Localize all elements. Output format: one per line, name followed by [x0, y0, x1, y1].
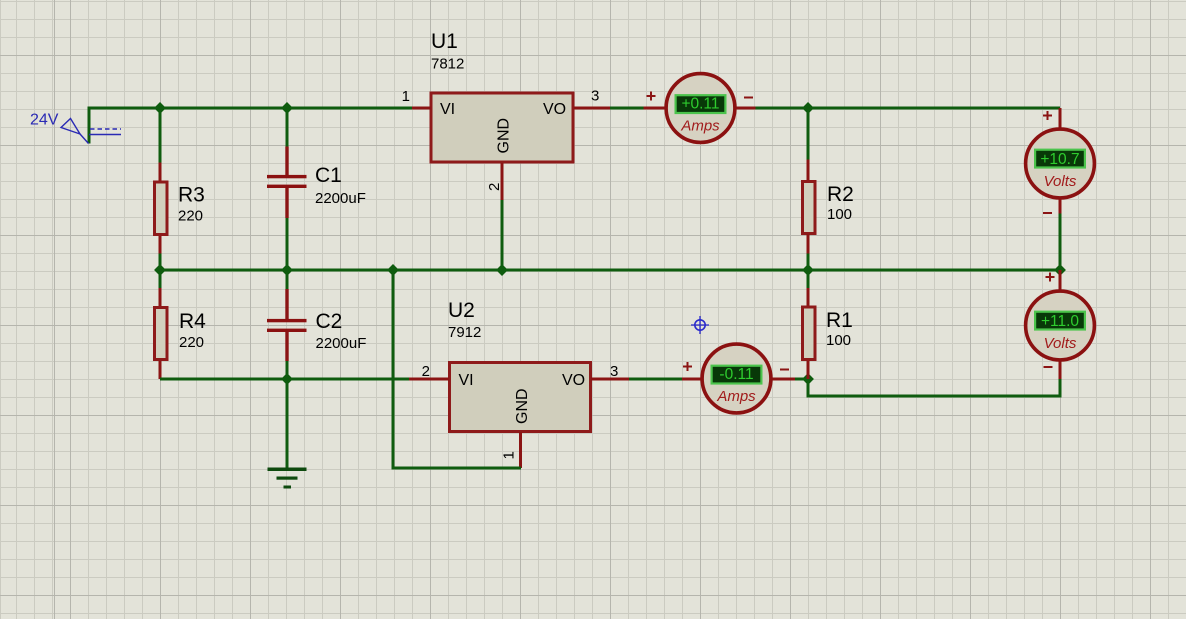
svg-text:+10.7: +10.7	[1040, 151, 1079, 168]
svg-text:100: 100	[827, 206, 852, 223]
svg-text:2200uF: 2200uF	[316, 335, 367, 352]
wire voltmeter VM2 bottom loop to ammeter node	[808, 379, 1060, 396]
wire C2 bottom to ground	[286, 361, 289, 468]
wire lower-left rail R4 to U2 pin2	[160, 378, 409, 381]
svg-text:7912: 7912	[448, 324, 481, 341]
svg-text:3: 3	[610, 363, 618, 380]
svg-text:R4: R4	[179, 310, 206, 333]
capacitor C1	[267, 147, 366, 219]
resistor R2	[803, 108, 854, 254]
wire U2 pin3 to ammeter AM2	[629, 378, 682, 381]
junction node lower rail at C2/ground	[281, 373, 293, 385]
resistor R4	[155, 288, 207, 379]
svg-text:GND: GND	[496, 118, 513, 154]
junction node top rail at R2	[802, 102, 814, 114]
svg-text:+0.11: +0.11	[681, 96, 719, 113]
svg-text:1: 1	[402, 88, 410, 105]
svg-text:VI: VI	[459, 372, 474, 389]
capacitor C2	[267, 289, 366, 361]
wire U1 pin3 to ammeter AM1	[610, 107, 644, 110]
wire U2 pin1 riser to mid rail	[393, 270, 521, 468]
svg-text:R1: R1	[826, 309, 853, 332]
voltage regulator U2 7912	[409, 299, 629, 468]
svg-text:Amps: Amps	[716, 388, 756, 405]
svg-text:VI: VI	[440, 101, 455, 118]
svg-text:VO: VO	[543, 101, 566, 118]
svg-text:R2: R2	[827, 183, 854, 206]
svg-text:220: 220	[179, 334, 204, 351]
wire voltmeter VM1 bottom to mid rail	[1059, 214, 1062, 271]
voltage regulator U1 7812	[402, 30, 610, 200]
svg-text:+11.0: +11.0	[1041, 313, 1079, 330]
junction node at R1 bottom / ammeter AM2 output	[802, 373, 814, 385]
junction node top rail at C1	[281, 102, 293, 114]
wire mid rail	[160, 269, 1060, 272]
wire R2 top green	[807, 108, 810, 160]
svg-text:24V: 24V	[30, 112, 59, 129]
svg-text:1: 1	[501, 451, 518, 459]
junction node top rail at R3	[154, 102, 166, 114]
svg-text:2200uF: 2200uF	[315, 190, 366, 207]
power terminal 24V	[30, 112, 121, 144]
svg-text:VO: VO	[562, 372, 585, 389]
voltmeter VM1	[1026, 108, 1095, 214]
svg-text:U2: U2	[448, 299, 475, 322]
junction node mid rail at U1 pin2	[496, 264, 508, 276]
svg-text:220: 220	[178, 208, 203, 225]
origin marker crosshair	[691, 316, 709, 334]
svg-text:C2: C2	[316, 310, 343, 333]
wire R3 bottom to mid rail and R4 top	[159, 254, 162, 289]
svg-text:3: 3	[591, 88, 599, 105]
svg-text:-0.11: -0.11	[719, 366, 753, 383]
junction node mid rail at R3/R4	[154, 264, 166, 276]
junction node mid rail at U2 pin1 riser	[387, 264, 399, 276]
svg-text:R3: R3	[178, 184, 205, 207]
wire C1 column top	[286, 108, 289, 147]
junction node mid rail at voltmeters	[1054, 264, 1066, 276]
svg-text:100: 100	[826, 332, 851, 349]
junction node mid rail at C1/C2	[281, 264, 293, 276]
svg-text:Amps: Amps	[680, 118, 720, 135]
resistor R1	[803, 288, 853, 379]
svg-text:C1: C1	[315, 164, 342, 187]
ammeter AM1	[644, 74, 756, 143]
svg-text:Volts: Volts	[1044, 173, 1077, 190]
svg-text:GND: GND	[514, 388, 531, 424]
wire ammeter AM2 to R1 node	[795, 378, 808, 381]
wire top rail from source to U1 pin1	[89, 108, 412, 144]
wire R2 bottom to mid rail and R1 top	[807, 254, 810, 289]
voltmeter VM2	[1026, 270, 1095, 379]
ammeter AM2	[682, 344, 795, 413]
resistor R3	[155, 163, 205, 254]
wire U1 pin2 to mid rail	[501, 200, 504, 270]
svg-text:U1: U1	[431, 30, 458, 53]
svg-text:2: 2	[422, 363, 430, 380]
svg-text:Volts: Volts	[1044, 335, 1077, 352]
svg-text:7812: 7812	[431, 56, 464, 73]
svg-text:2: 2	[486, 183, 503, 191]
ground	[268, 468, 307, 489]
wire ammeter AM1 to voltmeter VM1 corner	[756, 107, 1061, 110]
wire C1 bottom to mid rail and C2 top	[286, 218, 289, 289]
junction node mid rail at R2/R1	[802, 264, 814, 276]
wire R3 column top	[159, 108, 162, 163]
